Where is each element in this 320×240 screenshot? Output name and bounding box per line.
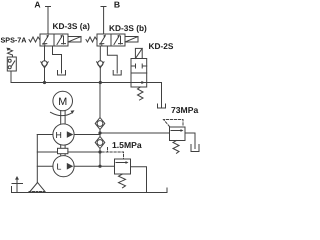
svg-text:H: H (56, 130, 62, 140)
valve KD-3S(b) spring (86, 37, 97, 42)
valve KD-3S(b) body (97, 34, 125, 46)
breather (12, 179, 23, 193)
relief valve RV1 pilot line (164, 120, 184, 127)
svg-text:A: A (34, 0, 40, 9)
wire valve a drain (53, 46, 62, 73)
wire SPS to bus (10, 71, 12, 83)
svg-text:M: M (58, 96, 67, 108)
junction dot (98, 150, 101, 153)
valve KD-3S(a) body (40, 34, 68, 46)
valve KD-2S spring (138, 87, 144, 100)
wire coupling drain left (37, 151, 57, 153)
junction dot (98, 131, 101, 134)
shaft coupling (58, 148, 68, 153)
tank drain Tb (113, 71, 121, 76)
svg-text:1.5MPa: 1.5MPa (112, 140, 142, 150)
wire RV1 outlet (185, 133, 195, 149)
wire coupling drain to junction (68, 151, 100, 153)
wire center column upper (99, 83, 101, 118)
pressure switch SPS-7A box (7, 57, 16, 71)
wire port A (46, 7, 51, 35)
valve KD-2S body (131, 59, 147, 88)
valve KD-3S(b) solenoid (125, 37, 138, 43)
junction dot (99, 81, 102, 84)
valve KD-3S(a) solenoid (68, 37, 81, 43)
valve KD-2S solenoid (135, 48, 142, 58)
wire pump L suction (37, 165, 53, 167)
svg-text:L: L (57, 162, 62, 172)
junction dot (98, 165, 101, 168)
check valve CVb (98, 61, 103, 66)
svg-text:SPS-7A: SPS-7A (1, 35, 27, 44)
svg-text:KD-3S (a): KD-3S (a) (53, 21, 91, 31)
relief valve RV2 spring (119, 174, 126, 188)
shaft M to H (61, 111, 65, 124)
relief valve RV1 spring (173, 141, 179, 154)
motor M1 (53, 91, 73, 111)
wire RV2 outlet (131, 167, 147, 193)
check valve CVa (42, 61, 47, 66)
tank drain Tc (158, 104, 166, 108)
rotation arrow (51, 112, 73, 115)
pressure switch SPS-7A arrow (8, 50, 13, 58)
svg-text:KD-3S (b): KD-3S (b) (109, 23, 147, 33)
wire valve b to check valve (99, 46, 101, 61)
tank outline (12, 187, 168, 193)
pump P1 (H) (53, 124, 74, 145)
svg-text:73MPa: 73MPa (171, 105, 198, 115)
wire bus to drain (161, 83, 163, 108)
wire port B (101, 7, 106, 35)
wire low pressure bus (74, 165, 114, 167)
relief valve RV2 pilot line (102, 152, 124, 159)
wire check valve 2 to low bus (99, 149, 101, 167)
wire left supply column (36, 135, 38, 183)
valve KD-3S(a) spring (29, 37, 40, 42)
pump P2 (L) (53, 156, 74, 177)
wire between check valves (99, 130, 101, 137)
wire check valve b to pump bus (99, 68, 101, 83)
wire main pump bus (11, 82, 162, 84)
wire check valve a to pump bus (44, 68, 46, 83)
wire valve a to check valve (44, 46, 46, 61)
wire pump H suction (37, 134, 52, 136)
shaft H to L (61, 145, 65, 155)
check valve CV2 diamond (95, 137, 105, 149)
tank drain Ta (58, 71, 66, 76)
strainer S1 (30, 183, 45, 192)
wire pump H discharge (74, 133, 169, 135)
svg-text:KD-2S: KD-2S (149, 41, 174, 51)
relief valve RV1 body (170, 127, 186, 141)
tank drain Td (191, 145, 199, 152)
junction dot (43, 81, 46, 84)
relief valve RV2 body (115, 159, 131, 174)
svg-text:B: B (114, 0, 120, 10)
check valve CV1 diamond (95, 118, 105, 130)
wire valve b drain (107, 46, 117, 73)
